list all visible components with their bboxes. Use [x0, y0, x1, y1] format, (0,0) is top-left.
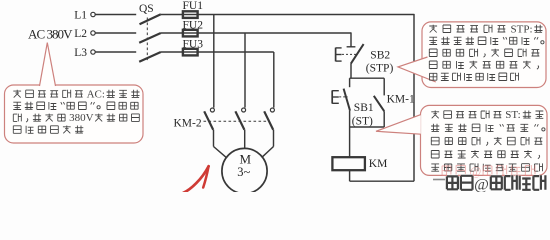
wire bottom return — [350, 180, 414, 182]
svg-text:KM-2: KM-2 — [174, 117, 202, 129]
bubble STP text line2 — [429, 37, 437, 44]
terminal L3 — [91, 50, 95, 54]
svg-text:QS: QS — [139, 3, 154, 15]
wire motor phase U drop — [213, 15, 215, 108]
wire motor phase W drop — [273, 52, 275, 108]
svg-text:M: M — [240, 151, 252, 166]
wire KM-2 pole1 to motor — [213, 130, 215, 147]
svg-text:AC 380V: AC 380V — [28, 26, 73, 41]
wire L1 bus to right rail — [198, 14, 414, 16]
fuse FU1 — [183, 14, 198, 16]
motor M 3~ — [222, 148, 267, 193]
contactor KM-2 pole 3 contact — [270, 108, 274, 112]
bubble AC text line2 — [13, 102, 21, 109]
svg-text:3~: 3~ — [237, 165, 250, 179]
switch QS pole 1 blade — [140, 14, 161, 24]
switch QS pole 2 blade — [139, 33, 161, 43]
watermark headline halo — [447, 176, 458, 189]
svg-text:SB1: SB1 — [354, 102, 374, 114]
wire SB2 to split — [350, 63, 352, 78]
watermark pink stamp — [442, 166, 451, 176]
terminal L2 — [91, 31, 95, 35]
wire coil to bottom — [349, 170, 351, 181]
wire rejoin bar — [350, 126, 385, 128]
wire KM-2 pole3 to motor — [273, 130, 275, 147]
svg-text:STP:: STP: — [511, 23, 533, 35]
bubble AC text line3 — [13, 114, 21, 122]
switch QS pole 3 blade — [139, 52, 161, 62]
contact KM-1 NO — [383, 78, 385, 95]
watermark headline — [447, 176, 458, 189]
wire right rail to L1 — [413, 14, 415, 181]
pushbutton SB1 actuator — [331, 90, 333, 103]
bubble AC text line4 — [13, 126, 21, 134]
contactor KM-2 pole 2 contact — [242, 108, 246, 112]
svg-text:SB2: SB2 — [370, 50, 390, 62]
contactor KM-2 pole 1 contact — [210, 108, 214, 112]
wire SB1 to rejoin — [349, 111, 351, 127]
svg-text:(ST): (ST) — [352, 115, 373, 127]
bubble STP text line4 — [429, 61, 437, 69]
wire L1 QS to FU1 — [161, 14, 183, 16]
wire L2 from terminal — [95, 32, 136, 34]
bubble AC text line1 — [13, 90, 21, 98]
red arrow to motor — [183, 166, 209, 193]
terminal L1 — [91, 12, 95, 16]
wire L1 from terminal — [95, 14, 136, 16]
bubble STP text line3 — [429, 49, 437, 57]
svg-text:KM-1: KM-1 — [387, 94, 415, 106]
contactor KM-2 linkage dashed — [204, 120, 270, 122]
callout bubble ST annotation — [421, 105, 548, 175]
pushbutton SB1 NO contact — [349, 78, 351, 87]
svg-text:ST:: ST: — [505, 109, 520, 121]
svg-text:KM: KM — [369, 158, 388, 170]
wire L3 bus — [198, 51, 274, 53]
svg-text:L1: L1 — [74, 10, 87, 22]
bubble STP text line5 — [430, 73, 437, 80]
wire L2 bus to control drop — [198, 32, 351, 34]
svg-text:(STP): (STP) — [366, 63, 394, 75]
wire L3 QS to FU3 — [161, 51, 183, 53]
fuse FU2 — [183, 32, 198, 34]
switch QS linkage dashed — [146, 18, 148, 63]
wire L2 control drop — [350, 32, 352, 46]
wire motor phase V drop — [244, 33, 246, 108]
fuse FU3 — [183, 51, 198, 53]
bubble ST text line4 — [431, 151, 439, 159]
svg-text:L2: L2 — [74, 28, 87, 40]
bubble STP text line1 — [429, 25, 437, 33]
wire L2 QS to FU2 — [161, 32, 183, 34]
svg-text:L3: L3 — [74, 47, 87, 59]
pushbutton SB2 NC contact — [347, 46, 356, 48]
wire to coil KM — [349, 127, 351, 157]
svg-text:@: @ — [474, 177, 489, 193]
pushbutton SB2 actuator — [335, 48, 337, 62]
svg-text:380V: 380V — [69, 112, 94, 124]
wire split bar — [350, 77, 385, 79]
wire KM-1 to rejoin — [383, 111, 385, 127]
wire KM-2 pole2 to motor — [244, 130, 246, 149]
bubble ST text line1 — [431, 111, 439, 119]
coil KM — [332, 157, 365, 170]
svg-text:AC:: AC: — [87, 88, 105, 100]
wire L3 from terminal — [95, 51, 136, 53]
callout bubble STP annotation — [422, 22, 546, 88]
bubble ST text line3 — [431, 137, 439, 145]
bubble ST text line2 — [431, 124, 439, 132]
callout bubble AC annotation — [5, 85, 144, 143]
bubble ST text line5 — [431, 164, 439, 171]
watermark dash — [433, 179, 446, 181]
